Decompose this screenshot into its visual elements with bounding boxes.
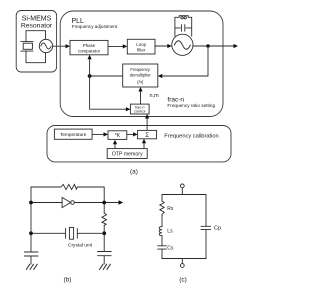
wire: right branch top xyxy=(205,195,207,227)
frequency calibration block xyxy=(47,126,231,162)
svg-text:Frequency: Frequency xyxy=(130,67,150,72)
arrow frac-n control up to demultiplier xyxy=(138,87,142,104)
annotation frac-n xyxy=(167,97,215,109)
svg-text:demultiplier: demultiplier xyxy=(130,72,152,77)
wire: bottom of c xyxy=(162,258,206,260)
top terminal xyxy=(180,184,184,195)
OTP memory box xyxy=(107,149,147,159)
bottom terminal xyxy=(180,259,184,268)
label n,m xyxy=(150,93,160,99)
Si-MEMS Resonator block xyxy=(16,11,56,73)
svg-text:Loop: Loop xyxy=(136,42,146,47)
node: feedback junction xyxy=(88,74,92,78)
*K box xyxy=(108,131,127,140)
AC source (oscillation) xyxy=(39,39,52,52)
capacitor Cp xyxy=(201,226,221,232)
arrow sigma up to frac-n control xyxy=(145,114,149,130)
svg-text:control: control xyxy=(134,110,146,114)
wire: crystal row xyxy=(31,232,104,234)
wire: inverter input xyxy=(31,202,62,204)
frequency demultiplier box xyxy=(123,64,158,87)
svg-text:*K: *K xyxy=(115,133,121,139)
arrow junction up to phase comparator xyxy=(88,55,92,76)
phase comparator box xyxy=(70,40,108,54)
wire: inverter output to right rail xyxy=(74,202,104,204)
svg-text:OTP memory: OTP memory xyxy=(112,152,143,158)
wire Cs to bottom xyxy=(161,249,163,258)
crystal unit symbol xyxy=(66,227,78,239)
svg-text:Frequency ratio setting: Frequency ratio setting xyxy=(167,103,215,108)
svg-text:Frequency adjustment: Frequency adjustment xyxy=(72,24,118,29)
VCO (oscillator circle) xyxy=(172,34,193,55)
svg-text:(c): (c) xyxy=(179,276,187,283)
svg-text:Resonator: Resonator xyxy=(21,23,53,30)
arrow *K to sigma xyxy=(127,132,138,136)
svg-text:Σ: Σ xyxy=(145,133,149,139)
arrow temperature to *K xyxy=(92,132,108,136)
svg-text:n,m: n,m xyxy=(150,93,160,99)
output arrow of oscillator xyxy=(104,200,123,204)
wire junction down to frac-n control xyxy=(90,76,131,111)
feedback wire from output to demultiplier xyxy=(158,46,208,78)
svg-text:Temperature: Temperature xyxy=(60,132,87,137)
label (c) xyxy=(179,276,187,283)
PLL block outline xyxy=(60,11,223,117)
load capacitor right xyxy=(98,252,112,265)
inverter gate xyxy=(62,197,74,207)
label (a) xyxy=(130,169,138,176)
output arrow from VCO xyxy=(193,44,238,48)
arrow OTP to sigma xyxy=(142,139,146,149)
svg-text:(/n): (/n) xyxy=(137,79,144,84)
resonator symbol above VCO xyxy=(175,16,192,37)
feedback resistor (top) xyxy=(61,184,77,189)
wire: left rail xyxy=(30,187,32,252)
label (b) xyxy=(64,276,72,283)
svg-text:filter: filter xyxy=(137,47,146,52)
temperature box xyxy=(54,129,92,139)
wire Ls to Cs xyxy=(161,236,163,246)
svg-text:(b): (b) xyxy=(64,276,72,283)
label Crystal unit xyxy=(68,242,93,248)
wire/arrow phase comparator to loop filter xyxy=(108,44,127,48)
wire: right branch bottom xyxy=(205,229,207,258)
resistor Rs xyxy=(160,201,174,214)
svg-text:Rs: Rs xyxy=(167,206,174,212)
svg-text:Crystal unit: Crystal unit xyxy=(68,242,93,248)
capacitor Cs xyxy=(158,246,174,252)
node: output junction xyxy=(206,44,210,48)
wire demultiplier output to junction xyxy=(90,75,123,77)
frac-n control box xyxy=(130,104,149,114)
right rail lower xyxy=(103,225,105,251)
svg-text:comparator: comparator xyxy=(78,49,101,54)
ground right xyxy=(100,264,111,269)
sigma box xyxy=(138,130,157,139)
wire loop inside Si-MEMS xyxy=(26,31,46,63)
inductor Ls xyxy=(159,227,173,236)
wire/arrow loop filter to VCO xyxy=(155,44,172,48)
load capacitor left xyxy=(24,252,38,264)
svg-text:Si-MEMS: Si-MEMS xyxy=(22,15,52,22)
wire: top xyxy=(31,186,104,188)
svg-text:Ls: Ls xyxy=(167,229,173,235)
arrow OTP to *K xyxy=(113,140,117,149)
svg-text:(a): (a) xyxy=(130,169,138,176)
svg-text:Cs: Cs xyxy=(167,246,174,252)
resistor on right rail xyxy=(102,213,107,225)
arrow Si-MEMS output to phase comparator xyxy=(53,44,70,48)
wire: left branch top xyxy=(161,195,163,202)
loop filter box xyxy=(127,39,155,54)
node dots circuit b xyxy=(29,201,106,236)
wire: top of c xyxy=(162,194,206,196)
crystal symbol (MEMS element) xyxy=(21,41,33,51)
svg-text:Cp: Cp xyxy=(214,226,221,232)
svg-text:Phase: Phase xyxy=(83,43,96,48)
right rail upper xyxy=(103,187,105,213)
ground left xyxy=(26,264,37,269)
wire Rs to Ls xyxy=(161,214,163,226)
svg-text:Frequency calibration: Frequency calibration xyxy=(164,133,218,139)
